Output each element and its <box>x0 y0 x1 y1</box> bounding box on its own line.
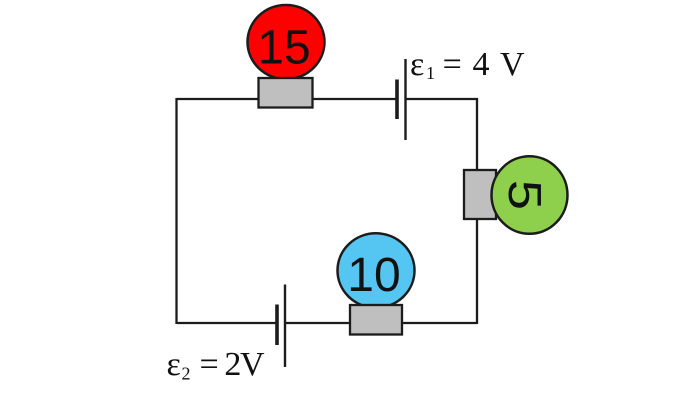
lamp B3 glass (cyan bulb) <box>338 233 415 307</box>
lamp B3 value label 10 <box>347 249 400 302</box>
svg-text:V: V <box>240 346 265 383</box>
wire bottom (left segment) <box>177 322 276 324</box>
svg-text:15: 15 <box>257 22 310 75</box>
svg-text:2: 2 <box>182 364 191 384</box>
lamp B2 base <box>464 170 496 219</box>
svg-text:1: 1 <box>426 63 435 83</box>
lamp B2 value label 5 <box>499 180 551 210</box>
lamp B1 value label 15 <box>257 22 310 75</box>
wire left side <box>175 98 177 324</box>
svg-text:=: = <box>443 46 462 83</box>
svg-text:5: 5 <box>499 180 551 210</box>
wire top (left segment) <box>177 98 397 100</box>
svg-text:4: 4 <box>473 46 490 83</box>
svg-text:V: V <box>500 46 525 83</box>
lamp B3 base <box>350 305 402 335</box>
battery E1 negative plate (short bar) <box>395 80 399 120</box>
lamp B2 glass (green bulb) <box>492 156 568 234</box>
svg-text:10: 10 <box>347 249 400 302</box>
battery E1 positive plate (long bar) <box>404 59 406 140</box>
svg-text:=: = <box>200 346 219 383</box>
svg-text:ε: ε <box>410 46 424 83</box>
battery E2 positive plate (long bar) <box>284 285 286 368</box>
lamp B1 base <box>259 78 313 108</box>
wire right side <box>476 98 478 324</box>
label E1 = 4 V <box>410 46 525 83</box>
battery E2 negative plate (short bar) <box>275 305 279 346</box>
lamp B1 glass (red bulb) <box>248 5 325 79</box>
wire bottom (right segment) <box>286 322 477 324</box>
svg-text:2: 2 <box>224 346 241 383</box>
wire top (right segment) <box>406 98 478 100</box>
label E2 = 2V <box>167 346 266 384</box>
svg-text:ε: ε <box>167 346 181 383</box>
